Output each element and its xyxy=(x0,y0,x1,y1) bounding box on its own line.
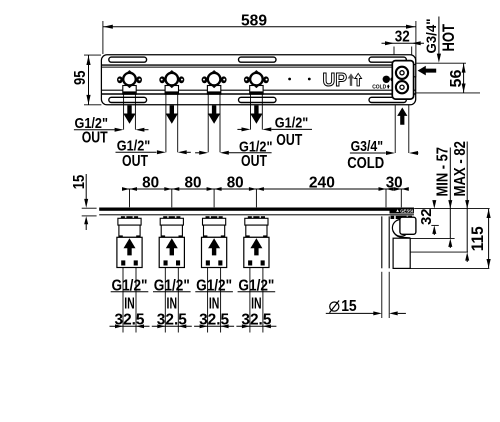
svg-text:95: 95 xyxy=(72,70,89,85)
reference line column bottom xyxy=(410,267,489,269)
svg-text:OUT: OUT xyxy=(122,153,148,170)
dimension diameter 15 xyxy=(326,272,406,318)
dimension 32 hot port offset xyxy=(382,29,425,65)
bracket rail lines xyxy=(101,65,415,94)
label G1/2 OUT valve3 xyxy=(195,138,272,170)
svg-text:G3/4": G3/4" xyxy=(424,19,439,54)
dimension 589 overall width xyxy=(103,12,416,63)
inlet valve 3 side view xyxy=(202,216,227,267)
tiny COLD marking xyxy=(372,84,390,90)
reference line hot port top xyxy=(416,62,466,64)
dimension 115 xyxy=(469,209,491,269)
reference line spout min xyxy=(410,237,454,239)
dimension 95 bracket height xyxy=(72,55,102,105)
svg-text:OUT: OUT xyxy=(241,153,267,170)
svg-text:32: 32 xyxy=(395,29,410,46)
inlet 1 label G1/2 IN 32.5 xyxy=(110,268,150,333)
svg-text:30: 30 xyxy=(386,175,403,192)
outlet 3 extension lines and down arrow xyxy=(208,94,220,152)
svg-text:80: 80 xyxy=(227,174,244,191)
hot inlet arrow pointing left xyxy=(418,66,437,76)
outlet 1 extension lines and down arrow xyxy=(123,94,135,129)
svg-text:UP: UP xyxy=(323,69,348,90)
svg-text:HOT: HOT xyxy=(439,24,458,52)
dimension 15 plate thickness xyxy=(71,174,97,230)
valve body 4 xyxy=(244,70,269,94)
inlet valve 4 side view xyxy=(244,216,269,267)
svg-text:56: 56 xyxy=(448,69,465,87)
inlet valve 2 side view xyxy=(159,216,184,267)
dimension 32 spout drop xyxy=(418,200,439,235)
svg-text:15: 15 xyxy=(341,298,357,315)
inlet 2 label G1/2 IN 32.5 xyxy=(152,268,192,333)
rivet dot right xyxy=(308,78,311,81)
cold knob dot xyxy=(383,76,395,83)
reference line plate top extended xyxy=(414,208,489,210)
inlet 3 label G1/2 IN 32.5 xyxy=(194,268,234,333)
svg-text:IN: IN xyxy=(167,295,178,312)
label G1/2 OUT valve1 xyxy=(74,115,149,146)
label G1/2 OUT valve4 xyxy=(237,114,312,149)
svg-text:MIN - 57: MIN - 57 xyxy=(435,147,452,197)
svg-text:115: 115 xyxy=(469,226,487,251)
label G3/4 HOT with leader arrow xyxy=(424,17,458,63)
inlet valve 1 side view xyxy=(117,216,142,267)
valve body 1 xyxy=(117,70,142,94)
svg-text:OUT: OUT xyxy=(276,132,302,149)
wall plate side view xyxy=(99,208,414,216)
chained dimension 80 80 80 240 30 xyxy=(122,174,409,207)
inlet 4 label G1/2 IN 32.5 xyxy=(236,268,276,333)
outlet 4 extension lines and down arrow xyxy=(250,94,262,129)
UP logo xyxy=(323,69,362,90)
svg-text:OUT: OUT xyxy=(82,130,108,147)
dimension MIN 57 xyxy=(435,147,453,248)
valve body 3 xyxy=(202,70,227,94)
hot and cold connection block xyxy=(392,61,415,100)
valve body 2 xyxy=(159,70,184,94)
svg-text:80: 80 xyxy=(185,174,202,191)
svg-text:IN: IN xyxy=(124,295,135,312)
svg-text:80: 80 xyxy=(142,174,159,191)
top mounting slots xyxy=(109,57,407,62)
svg-text:32: 32 xyxy=(418,209,435,226)
svg-text:MAX - 82: MAX - 82 xyxy=(452,141,469,197)
dimension 56 xyxy=(415,63,480,93)
svg-text:G3/4": G3/4" xyxy=(351,138,384,155)
reference line spout max xyxy=(410,251,468,253)
cold port extension lines and up arrow xyxy=(395,105,409,153)
svg-text:15: 15 xyxy=(71,174,88,189)
label G1/2 OUT valve2 xyxy=(116,137,191,170)
rivet dot left xyxy=(288,78,291,81)
svg-text:IN: IN xyxy=(251,295,262,312)
svg-text:G1/2": G1/2" xyxy=(275,114,309,131)
bottom mounting slots xyxy=(109,97,407,102)
svg-text:COLD: COLD xyxy=(347,155,384,172)
bracket outline xyxy=(101,55,415,105)
spout assembly side view xyxy=(382,216,416,269)
svg-text:GESSI: GESSI xyxy=(400,209,413,214)
outlet 2 extension lines and down arrow xyxy=(166,94,178,152)
svg-text:240: 240 xyxy=(309,174,335,191)
label G3/4 COLD xyxy=(347,138,418,172)
svg-text:IN: IN xyxy=(209,295,220,312)
dimension MAX 82 xyxy=(452,141,469,262)
svg-text:COLD: COLD xyxy=(372,85,386,91)
svg-text:589: 589 xyxy=(241,12,267,29)
